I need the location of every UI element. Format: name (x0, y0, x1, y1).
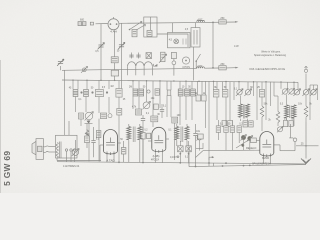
capacitor C6 (160, 104, 164, 118)
resistor R25 vertical (260, 97, 264, 132)
svg-text:FM-GEGENKOPPLUNG: FM-GEGENKOPPLUNG (250, 67, 286, 71)
interstage transformer T5 (127, 124, 142, 162)
resistor R48 (121, 141, 126, 162)
wires detector cluster (200, 120, 250, 151)
wire drops stage2 (133, 81, 192, 116)
svg-text:Spannungswerte o. Belastung: Spannungswerte o. Belastung (254, 54, 287, 57)
pilot lamp (174, 39, 186, 45)
resistor R37 500 (85, 129, 90, 148)
resistor R17 (136, 109, 142, 115)
pot P8 (197, 135, 203, 141)
component value labels (69, 29, 313, 159)
resistor R24 (259, 90, 264, 98)
diode D2 (154, 64, 158, 67)
resistor R21 (202, 95, 207, 101)
wire bottom left short (57, 158, 101, 161)
resistor R47 (117, 109, 122, 116)
junction dots bottom (118, 161, 251, 167)
audio line (196, 150, 260, 157)
capacitor block C3 (191, 23, 200, 47)
svg-text:A TAD: A TAD (106, 159, 115, 163)
wire vertical antenna drop x90 (100, 24, 102, 80)
X-cap C12 (178, 146, 184, 155)
switch contact S2 (195, 54, 200, 68)
resistor R10 (100, 113, 106, 119)
resistor R43 (230, 126, 234, 133)
capacitor C7 (193, 124, 197, 167)
svg-text:4 BC: 4 BC (197, 20, 202, 22)
resistor R46 (154, 104, 159, 110)
IF coil row under switch (128, 62, 153, 76)
resistor R29 row2 (228, 121, 233, 127)
speaker (32, 139, 49, 160)
socket circle B (288, 88, 294, 94)
coupling box (247, 138, 260, 143)
resistor R26 vertical (276, 96, 280, 126)
svg-text:0,1W 50: 0,1W 50 (170, 156, 180, 159)
tube V1 top view 4AH (108, 17, 119, 30)
resistor R44 (237, 126, 241, 133)
resistor R9 (79, 113, 84, 119)
scan left edge (0, 60, 2, 193)
svg-text:4 AH: 4 AH (110, 30, 117, 34)
dial lamp box (168, 23, 191, 48)
band switch S1 (129, 17, 157, 37)
tube V4 (260, 132, 274, 158)
svg-text:4FD ZA: 4FD ZA (151, 158, 160, 161)
driver transformer T6 (175, 124, 189, 146)
svg-text:4 ANTIRES 04: 4 ANTIRES 04 (63, 165, 80, 168)
speaker wires (49, 146, 56, 152)
pot P9 (241, 135, 247, 141)
pot P10 (247, 136, 253, 142)
jack socket circle (182, 57, 189, 64)
antenna stub right edge (296, 145, 319, 147)
svg-text:Werte in Volt gem.: Werte in Volt gem. (261, 51, 281, 54)
node circle (108, 114, 112, 118)
resistor R23 (222, 90, 228, 98)
resistor R28 row2 (222, 121, 227, 127)
capacitor C10 (136, 53, 140, 59)
svg-text:250: 250 (220, 63, 225, 66)
resistor R34 (198, 134, 203, 139)
tube V2 (104, 130, 118, 156)
tube V3 wires (148, 139, 169, 141)
wire drops stage3 (198, 74, 318, 161)
svg-text:4 POS: 4 POS (182, 65, 190, 69)
transformer secondary box (56, 121, 78, 162)
svg-text:4 BC: 4 BC (197, 66, 202, 68)
antenna coil L1 (78, 22, 94, 26)
resistor R36 (147, 133, 151, 139)
bus junction dots (72, 79, 295, 83)
tube V3 (152, 127, 166, 153)
bus B main rail (62, 80, 298, 82)
wire vertical x131 (121, 23, 123, 88)
ground lead (305, 122, 307, 159)
resistor R45 (96, 131, 101, 138)
capacitor C8 (91, 127, 95, 157)
coil L3 on bus A (197, 67, 205, 69)
wires xcaps (180, 141, 188, 163)
volume pot P1 (85, 112, 94, 121)
resistor R20 (196, 95, 201, 101)
resistor R12 (139, 89, 144, 96)
X-cap C13 (186, 146, 192, 155)
resistor R6 (84, 90, 89, 97)
wire drops stage1 (73, 80, 119, 89)
resistor R15 (185, 89, 190, 96)
svg-text:5 GW 69: 5 GW 69 (2, 151, 12, 186)
junction blob (236, 141, 247, 148)
svg-text:6M30: 6M30 (262, 156, 269, 160)
resistor R14 (178, 89, 183, 96)
pot P5 (293, 89, 300, 96)
pot P12 (277, 126, 283, 132)
grid stopper loop (196, 143, 214, 158)
ground (301, 159, 311, 164)
resistor R27 vertical (304, 95, 308, 122)
bus A left corner drop (64, 70, 66, 90)
pot P6 (302, 89, 309, 96)
tube V2 grid caps (100, 143, 121, 161)
svg-text:1M: 1M (110, 86, 113, 88)
wire x193.5 drop (193, 47, 195, 80)
resistor R16 (191, 89, 196, 96)
resistor R8 (116, 89, 122, 98)
resistor R40 (155, 89, 159, 95)
hum pot P11 (72, 140, 80, 156)
svg-text:2M: 2M (129, 87, 132, 89)
wire junction vertical x213 (212, 22, 214, 69)
coil L2 on top line (197, 20, 205, 22)
wire top FM line L1 (96, 21, 239, 24)
node dots stage1 (80, 91, 108, 93)
bottom bus 1 (57, 162, 306, 164)
socket circle C (274, 124, 297, 151)
output transformer T4 (56, 142, 61, 159)
wire L1b (157, 34, 188, 47)
resistor R35 (141, 127, 146, 162)
resistor R33 row2 (289, 121, 293, 127)
resistor R41 (216, 126, 220, 133)
trimmer C2 (118, 42, 125, 49)
diode D3 (85, 121, 93, 124)
resistor R30 row2 (243, 121, 248, 127)
capacitor C5 (141, 115, 145, 124)
svg-text:4 W: 4 W (234, 44, 239, 48)
resistor R7 (95, 90, 103, 97)
svg-text:SPULENSATZ 04: SPULENSATZ 04 (252, 163, 271, 166)
resistor R13 (167, 90, 171, 95)
svg-text:REGELN: REGELN (246, 147, 256, 150)
resistor R31 row2 (249, 121, 254, 127)
trimmer box C11 (146, 53, 152, 59)
wires stage2 lower (133, 95, 192, 160)
resistor R18 (151, 116, 158, 122)
resistor R3 (219, 20, 226, 24)
resistor R42 (224, 126, 228, 133)
bottom bus 2 (189, 146, 306, 167)
resistor R22 (213, 90, 219, 98)
svg-text:600: 600 (80, 19, 85, 22)
IF transformer T2 coils (239, 96, 250, 126)
FM dipole symbol (304, 66, 307, 72)
pot tap on bus (81, 66, 88, 72)
pot P3 (236, 89, 243, 96)
resistor R39 (171, 52, 176, 75)
wires tube pins to bus (107, 153, 270, 167)
node circle B (147, 90, 150, 93)
IF transformer T3 coils (285, 95, 297, 127)
svg-text:250: 250 (220, 17, 225, 20)
resistor R38 (159, 52, 167, 63)
wire drops stage1 lower (65, 91, 120, 162)
pot P7 (310, 89, 317, 96)
bus A (y~68-70) (62, 67, 239, 71)
resistor R4 (219, 66, 226, 70)
trimmer C4 (57, 59, 64, 66)
resistor R19 (172, 117, 178, 123)
choke L4 (85, 123, 89, 140)
svg-text:(L4B): (L4B) (153, 154, 160, 158)
resistor R11 (133, 89, 138, 96)
resistor R32 row2 (283, 121, 287, 127)
trimmer C1 (98, 43, 105, 50)
resistor R5 (73, 90, 78, 97)
socket circle A (282, 88, 288, 94)
resistor 180 (111, 30, 118, 80)
wire stage1 to bottom (89, 119, 99, 162)
capacitor C9 (129, 53, 133, 59)
pot P2 (143, 101, 151, 109)
pot P4 (244, 89, 251, 96)
